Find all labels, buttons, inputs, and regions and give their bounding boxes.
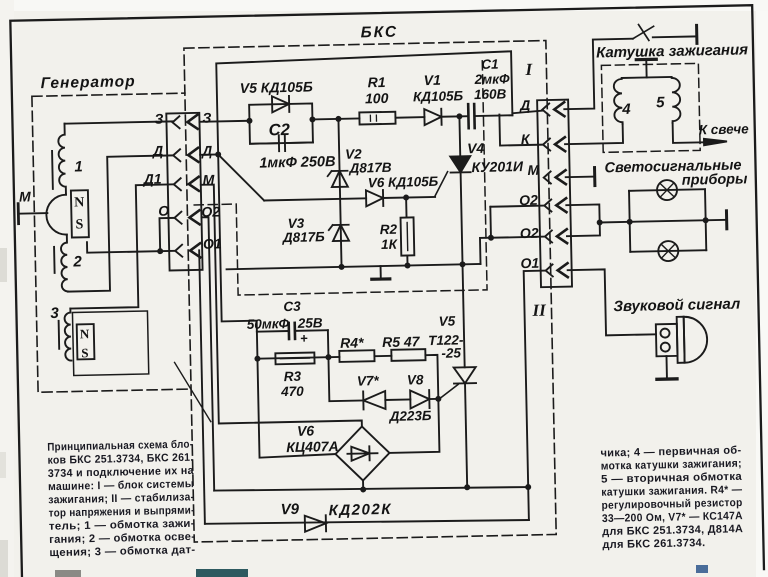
svg-text:1К: 1К: [381, 237, 399, 252]
svg-text:С1: С1: [481, 57, 499, 72]
svg-text:N: N: [74, 195, 84, 210]
svg-text:5: 5: [656, 94, 665, 111]
svg-text:О: О: [158, 202, 169, 218]
svg-text:-25: -25: [441, 345, 461, 360]
svg-text:V8: V8: [407, 372, 424, 387]
svg-text:V9: V9: [280, 501, 299, 518]
svg-text:Д: Д: [519, 97, 530, 113]
svg-text:КД105Б: КД105Б: [413, 88, 464, 104]
svg-text:4: 4: [621, 101, 631, 118]
svg-text:Д817В: Д817В: [348, 160, 392, 176]
svg-text:М: М: [527, 162, 539, 178]
svg-text:КУ201И: КУ201И: [471, 158, 524, 175]
svg-text:Звуковой сигнал: Звуковой сигнал: [613, 296, 741, 316]
svg-text:Д817Б: Д817Б: [282, 229, 326, 245]
svg-text:R2: R2: [380, 222, 398, 237]
svg-text:V4: V4: [467, 140, 485, 156]
svg-text:R1: R1: [368, 74, 386, 90]
svg-text:О1: О1: [203, 235, 222, 251]
svg-text:V7*: V7*: [357, 373, 380, 388]
svg-text:470: 470: [280, 384, 304, 399]
svg-text:1: 1: [74, 158, 83, 175]
svg-text:N: N: [80, 326, 90, 341]
svg-text:V6: V6: [297, 422, 315, 438]
svg-text:R3: R3: [284, 369, 302, 384]
svg-text:R5 47: R5 47: [382, 333, 421, 350]
svg-text:КД202К: КД202К: [328, 501, 392, 519]
svg-text:Д1: Д1: [142, 171, 161, 187]
svg-text:V2: V2: [345, 146, 362, 161]
svg-text:С2: С2: [268, 121, 289, 139]
svg-text:С3: С3: [283, 299, 301, 314]
svg-text:КЦ407А: КЦ407А: [286, 438, 339, 455]
svg-text:V6 КД105Б: V6 КД105Б: [368, 174, 439, 190]
svg-text:Генератор: Генератор: [40, 73, 135, 92]
svg-text:1мкФ 250В: 1мкФ 250В: [259, 154, 335, 172]
svg-text:О2: О2: [201, 203, 220, 219]
svg-text:2: 2: [72, 253, 82, 270]
svg-text:для БКС 261.3734.: для БКС 261.3734.: [602, 537, 705, 551]
svg-text:БКС: БКС: [360, 24, 398, 42]
svg-text:50мкФ: 50мкФ: [247, 316, 290, 332]
svg-text:приборы: приборы: [682, 171, 749, 188]
svg-text:З: З: [202, 110, 211, 126]
svg-text:3: 3: [50, 305, 59, 322]
svg-text:V5: V5: [439, 314, 456, 329]
svg-text:О2: О2: [519, 192, 538, 208]
svg-text:V3: V3: [287, 216, 304, 231]
svg-text:М: М: [19, 188, 31, 204]
svg-text:+: +: [300, 331, 308, 346]
svg-text:160В: 160В: [474, 86, 507, 102]
svg-text:25В: 25В: [297, 315, 323, 331]
svg-text:S: S: [75, 217, 83, 232]
svg-text:О2: О2: [520, 225, 539, 241]
svg-text:R4*: R4*: [340, 334, 364, 350]
svg-text:V1: V1: [423, 72, 441, 88]
svg-text:2мкФ: 2мкФ: [473, 71, 510, 87]
svg-text:К свече: К свече: [699, 121, 750, 137]
svg-text:М: М: [203, 172, 215, 188]
svg-text:Катушка зажигания: Катушка зажигания: [596, 41, 748, 61]
svg-text:О1: О1: [520, 255, 539, 271]
svg-text:V5 КД105Б: V5 КД105Б: [240, 78, 313, 96]
svg-text:З: З: [154, 111, 163, 127]
svg-text:II: II: [531, 301, 547, 320]
svg-text:Д: Д: [201, 143, 212, 159]
svg-text:Д: Д: [152, 143, 163, 159]
svg-text:S: S: [81, 345, 89, 360]
svg-text:100: 100: [365, 90, 389, 106]
svg-text:Д223Б: Д223Б: [389, 408, 433, 424]
